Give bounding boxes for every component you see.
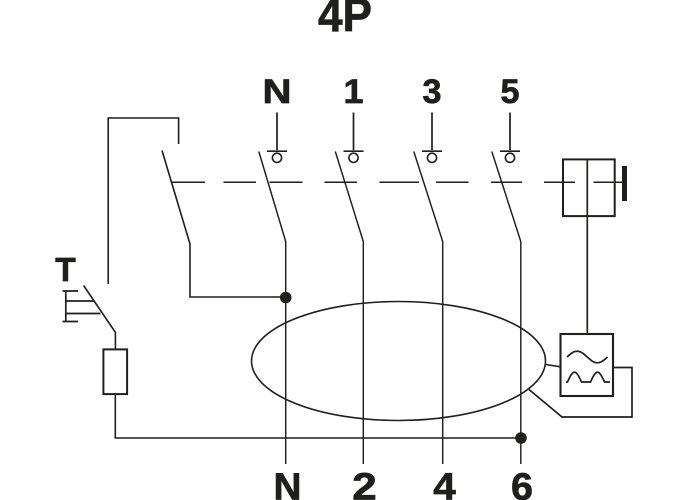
svg-text:4P: 4P: [318, 0, 372, 42]
svg-text:4: 4: [433, 467, 456, 500]
svg-text:N: N: [263, 73, 292, 111]
svg-text:2: 2: [352, 467, 377, 500]
svg-text:1: 1: [344, 73, 364, 111]
svg-text:T: T: [55, 252, 76, 289]
svg-text:3: 3: [423, 73, 442, 111]
svg-text:N: N: [274, 467, 302, 500]
svg-text:6: 6: [511, 467, 533, 500]
svg-text:5: 5: [501, 73, 520, 111]
